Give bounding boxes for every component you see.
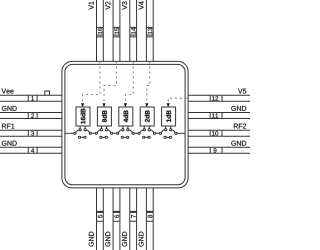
switch throw contacts for 16dB bbox=[79, 129, 81, 131]
pin 1 Vee left pin rectangle bbox=[0, 95, 62, 101]
ground net label GND pin 6 bbox=[105, 232, 110, 247]
pin number 2 bbox=[31, 113, 34, 117]
ground net label GND pin 7 bbox=[122, 232, 127, 247]
net label V4 bbox=[139, 1, 144, 9]
wire RF main line segment 3 bbox=[113, 132, 117, 134]
attenuator pad 2dB box bbox=[140, 107, 154, 126]
net label V3 bbox=[122, 1, 127, 9]
attenuator pad 8dB box bbox=[97, 107, 111, 126]
net label GND bbox=[231, 106, 246, 111]
net label V5 bbox=[238, 89, 246, 94]
net label V1 bbox=[89, 1, 94, 9]
pin 15 number box dividers bbox=[113, 27, 120, 37]
pin 3 number box dividers bbox=[28, 130, 37, 136]
switch pole contacts for 1dB bbox=[159, 132, 161, 134]
wire dashed V4 control net to 2dB cell bbox=[147, 61, 150, 103]
attenuator pad 8dB lead stubs bbox=[102, 126, 107, 129]
switch arms for 2dB bbox=[140, 130, 154, 133]
switch arms for 8dB bbox=[97, 130, 111, 133]
bypass switch for 2dB bbox=[143, 136, 145, 138]
pin number 3 bbox=[31, 131, 34, 135]
attenuator pad 4dB lead stubs bbox=[123, 126, 128, 129]
bypass switch for 4dB bbox=[121, 136, 123, 138]
wire RF main line segment 2 bbox=[91, 132, 95, 134]
pin 8 GND bottom pin rectangle bbox=[146, 188, 153, 250]
pin number 16 bbox=[98, 28, 102, 34]
bypass switch for 16dB bbox=[78, 136, 80, 138]
net label GND bbox=[2, 106, 17, 111]
pin number 9 bbox=[214, 148, 217, 152]
pin 15 V2 top pin rectangle bbox=[113, 0, 120, 61]
attenuator pad 1dB control arrow bbox=[167, 103, 170, 107]
pin 6 GND bottom pin rectangle bbox=[113, 188, 120, 250]
attenuator pad 2dB control arrow bbox=[145, 103, 148, 107]
pin 7 number box dividers bbox=[130, 211, 137, 221]
net label Vee bbox=[2, 89, 14, 94]
pin 4 number box dividers bbox=[28, 147, 37, 153]
pin 1 number box dividers bbox=[28, 95, 37, 101]
pin 8 number box dividers bbox=[146, 211, 153, 221]
bypass switch for 1dB bbox=[164, 136, 166, 138]
pin number 5 bbox=[98, 215, 102, 218]
attenuator pad 16dB lead stubs bbox=[80, 126, 85, 129]
pin number 8 bbox=[148, 215, 152, 218]
pin 13 V4 top pin rectangle bbox=[146, 0, 153, 61]
switch throw contacts for 1dB bbox=[165, 129, 167, 131]
net label RF1 bbox=[2, 124, 14, 129]
attenuator pad 16dB control arrow bbox=[81, 103, 84, 107]
attenuator pad 8dB control arrow bbox=[102, 103, 105, 107]
switch arms for 16dB bbox=[76, 130, 90, 133]
value label 16dB bbox=[81, 109, 86, 124]
wire dashed V3 control net to 4dB cell bbox=[125, 61, 133, 103]
pin 7 GND bottom pin rectangle bbox=[130, 188, 137, 250]
net label GND bbox=[231, 141, 246, 146]
pin 9 number box dividers bbox=[210, 147, 222, 153]
pin 2 number box dividers bbox=[28, 113, 37, 119]
ground net label GND pin 5 bbox=[89, 232, 94, 247]
pin 14 number box dividers bbox=[130, 27, 137, 37]
pin number 1 bbox=[31, 96, 34, 100]
wire RF main line segment 1 bbox=[65, 132, 74, 134]
attenuator pad 1dB box bbox=[162, 107, 176, 126]
pin 12 number box dividers bbox=[210, 95, 222, 101]
wire RF main line segment 4 bbox=[134, 132, 138, 134]
value label 2dB bbox=[145, 110, 150, 122]
wire dashed V1 control net to 16dB cell bbox=[83, 61, 100, 103]
pin number 6 bbox=[115, 215, 119, 218]
pin number 13 bbox=[148, 28, 152, 34]
net label GND bbox=[2, 141, 17, 146]
value label 4dB bbox=[123, 110, 128, 122]
pin 13 number box dividers bbox=[146, 27, 153, 37]
switch pole contacts for 8dB bbox=[95, 132, 97, 134]
pin number 15 bbox=[115, 28, 119, 34]
pin number 11 bbox=[212, 113, 218, 117]
pin 12 V5 right pin rectangle bbox=[188, 95, 250, 101]
pin 10 number box dividers bbox=[210, 130, 222, 136]
switch pole contacts for 16dB bbox=[74, 132, 76, 134]
pin 5 GND bottom pin rectangle bbox=[97, 188, 104, 250]
pin number 4 bbox=[31, 148, 34, 152]
net label RF2 bbox=[234, 124, 246, 129]
switch arms for 1dB bbox=[161, 130, 175, 133]
pulse marker on Vee pin 1 bbox=[45, 91, 50, 95]
switch throw contacts for 2dB bbox=[143, 129, 145, 131]
pin 11 number box dividers bbox=[210, 113, 222, 119]
pin 11 GND right pin rectangle bbox=[188, 113, 250, 119]
pin 3 RF1 left pin rectangle bbox=[0, 130, 62, 136]
attenuator pad 4dB control arrow bbox=[124, 103, 127, 107]
pin 16 V1 top pin rectangle bbox=[97, 0, 104, 61]
pin 14 V3 top pin rectangle bbox=[130, 0, 137, 61]
IC U1 attenuator body inner outline bbox=[65, 64, 185, 184]
switch throw contacts for 8dB bbox=[100, 129, 102, 131]
switch arms for 4dB bbox=[119, 130, 133, 133]
value label 8dB bbox=[102, 110, 107, 122]
wire dashed V2 control net to 8dB cell bbox=[104, 61, 117, 103]
ground net label GND pin 8 bbox=[139, 232, 144, 247]
IC U1 attenuator body outer outline bbox=[62, 61, 188, 187]
attenuator pad 4dB box bbox=[119, 107, 133, 126]
net label V2 bbox=[105, 1, 110, 9]
bypass switch for 8dB bbox=[100, 136, 102, 138]
pin 9 GND right pin rectangle bbox=[188, 147, 250, 153]
switch throw contacts for 4dB bbox=[122, 129, 124, 131]
pin number 7 bbox=[131, 215, 135, 218]
attenuator pad 16dB box bbox=[76, 107, 90, 126]
value label 1dB bbox=[166, 110, 171, 122]
wire RF main line segment 6 bbox=[177, 132, 185, 134]
attenuator pad 2dB lead stubs bbox=[144, 126, 149, 129]
pin 10 RF2 right pin rectangle bbox=[188, 130, 250, 136]
wire dashed V5 control net to 1dB cell bbox=[168, 98, 187, 103]
pin 16 number box dividers bbox=[97, 27, 104, 37]
switch pole contacts for 2dB bbox=[138, 132, 140, 134]
wire RF main line segment 5 bbox=[156, 132, 160, 134]
pin 2 GND left pin rectangle bbox=[0, 113, 62, 119]
switch pole contacts for 4dB bbox=[117, 132, 119, 134]
pin number 12 bbox=[212, 96, 218, 100]
pin number 14 bbox=[131, 28, 135, 34]
pin 4 GND left pin rectangle bbox=[0, 147, 62, 153]
attenuator pad 1dB lead stubs bbox=[166, 126, 171, 129]
pin number 10 bbox=[212, 131, 218, 135]
pin 5 number box dividers bbox=[97, 211, 104, 221]
pin 6 number box dividers bbox=[113, 211, 120, 221]
